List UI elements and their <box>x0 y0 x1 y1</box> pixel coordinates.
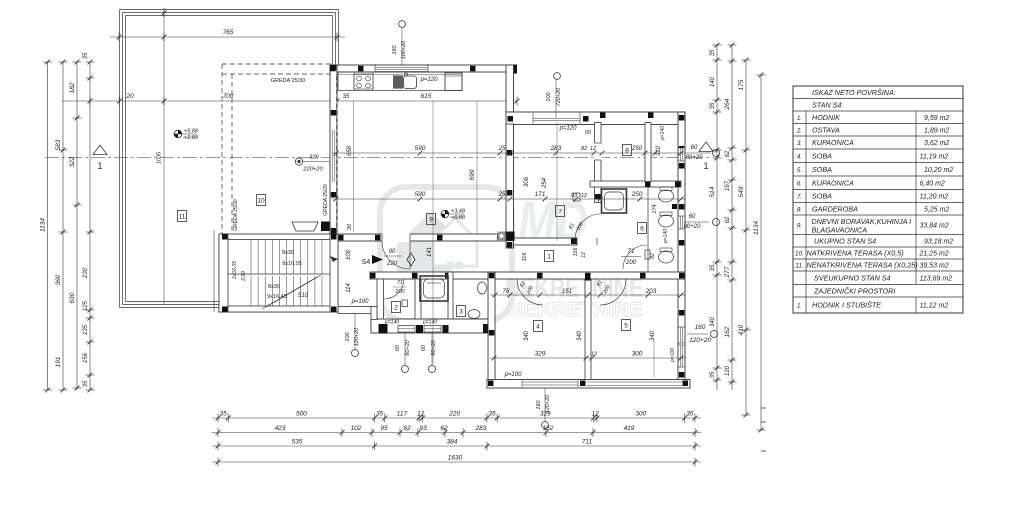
svg-text:UKUPNO STAN S4: UKUPNO STAN S4 <box>814 236 876 245</box>
svg-text:25: 25 <box>498 146 506 152</box>
svg-text:220: 220 <box>448 411 460 418</box>
svg-text:113,69 m2: 113,69 m2 <box>920 275 953 282</box>
svg-text:283: 283 <box>475 425 487 432</box>
svg-text:100+20: 100+20 <box>401 40 407 59</box>
svg-text:329: 329 <box>535 351 546 358</box>
svg-text:80+20: 80+20 <box>684 224 702 230</box>
svg-text:167: 167 <box>725 180 731 191</box>
svg-text:329: 329 <box>540 411 551 418</box>
svg-text:360: 360 <box>55 274 62 285</box>
svg-text:117: 117 <box>397 411 408 418</box>
svg-text:200: 200 <box>625 260 637 266</box>
svg-text:25: 25 <box>498 192 506 198</box>
svg-text:1: 1 <box>703 161 708 171</box>
svg-text:125: 125 <box>83 300 89 311</box>
svg-text:NATKRIVENA TERASA (X0,5): NATKRIVENA TERASA (X0,5) <box>807 249 904 258</box>
svg-text:p=100: p=100 <box>504 372 523 378</box>
svg-text:p=140: p=140 <box>663 229 669 244</box>
svg-text:220: 220 <box>386 261 398 267</box>
svg-text:2,90: 2,90 <box>241 271 247 282</box>
svg-text:630: 630 <box>69 292 76 303</box>
svg-text:HODNIK I STUBIŠTE: HODNIK I STUBIŠTE <box>812 301 881 310</box>
svg-text:549: 549 <box>738 186 745 197</box>
svg-text:765: 765 <box>223 29 234 36</box>
svg-text:p=100: p=100 <box>351 299 370 305</box>
svg-text:35: 35 <box>83 380 89 387</box>
svg-text:60: 60 <box>395 344 401 351</box>
svg-text:71: 71 <box>397 280 403 286</box>
svg-text:S4: S4 <box>362 259 371 266</box>
svg-text:340: 340 <box>710 316 716 327</box>
svg-text:264: 264 <box>724 98 731 110</box>
svg-text:203: 203 <box>645 288 657 295</box>
svg-text:6: 6 <box>640 226 644 233</box>
svg-text:11,19 m2: 11,19 m2 <box>920 153 949 160</box>
svg-text:p=120: p=120 <box>420 77 439 83</box>
svg-text:35: 35 <box>83 52 89 59</box>
svg-text:GREDA 25/20: GREDA 25/20 <box>323 184 329 216</box>
svg-text:10,20 m2: 10,20 m2 <box>924 167 953 174</box>
svg-text:510: 510 <box>298 293 309 299</box>
svg-text:100: 100 <box>546 91 552 101</box>
svg-text:p=120: p=120 <box>559 126 578 132</box>
svg-text:12: 12 <box>592 411 600 418</box>
svg-text:1: 1 <box>547 254 551 261</box>
svg-text:283: 283 <box>550 145 562 152</box>
svg-text:39,53 m2: 39,53 m2 <box>920 263 949 270</box>
svg-text:9x16,05: 9x16,05 <box>282 261 302 267</box>
svg-text:35: 35 <box>376 411 384 418</box>
svg-text:419: 419 <box>624 425 635 432</box>
svg-text:8x30: 8x30 <box>282 250 294 256</box>
svg-text:80+20: 80+20 <box>686 155 704 161</box>
svg-text:95: 95 <box>380 425 388 432</box>
svg-text:12: 12 <box>591 352 597 358</box>
svg-text:250: 250 <box>631 191 643 198</box>
svg-text:93,18 m2: 93,18 m2 <box>924 238 953 245</box>
svg-text:82: 82 <box>650 253 656 259</box>
svg-text:615: 615 <box>421 93 432 100</box>
svg-text:STAN S4:: STAN S4: <box>812 100 843 109</box>
svg-text:590: 590 <box>415 191 426 198</box>
svg-text:62: 62 <box>403 425 411 432</box>
svg-text:116: 116 <box>522 252 528 262</box>
svg-text:410: 410 <box>738 324 745 335</box>
svg-text:62: 62 <box>440 425 448 432</box>
svg-text:+3,48: +3,48 <box>451 209 466 215</box>
svg-text:GARDEROBA: GARDEROBA <box>812 204 858 213</box>
svg-text:p=100: p=100 <box>670 348 676 363</box>
svg-text:9,59 m2: 9,59 m2 <box>924 115 949 122</box>
svg-text:NEKRETNINE: NEKRETNINE <box>508 300 643 321</box>
svg-text:9.: 9. <box>797 222 802 229</box>
svg-text:10: 10 <box>257 198 265 205</box>
svg-text:SVEUKUPNO STAN S4: SVEUKUPNO STAN S4 <box>814 273 891 282</box>
svg-text:60: 60 <box>689 214 696 220</box>
svg-text:62: 62 <box>725 150 731 157</box>
svg-text:658: 658 <box>347 145 353 156</box>
svg-text:182: 182 <box>69 82 76 93</box>
svg-text:11,20 m2: 11,20 m2 <box>920 194 949 201</box>
svg-text:ZAJEDNIČKI PROSTORI: ZAJEDNIČKI PROSTORI <box>813 286 895 295</box>
svg-text:9x16,45: 9x16,45 <box>267 294 287 300</box>
svg-text:8: 8 <box>625 148 629 155</box>
svg-text:423: 423 <box>275 425 286 432</box>
svg-text:141: 141 <box>427 247 433 257</box>
svg-text:35: 35 <box>488 411 496 418</box>
svg-text:71: 71 <box>628 249 635 255</box>
svg-text:120+20: 120+20 <box>689 337 711 344</box>
svg-text:220+20: 220+20 <box>302 167 323 173</box>
svg-text:11.: 11. <box>795 263 803 270</box>
svg-text:80+20: 80+20 <box>405 339 411 355</box>
svg-text:160: 160 <box>392 44 398 54</box>
svg-text:174: 174 <box>652 204 658 213</box>
svg-text:699: 699 <box>469 169 476 180</box>
svg-text:171: 171 <box>535 191 546 198</box>
svg-text:93: 93 <box>419 425 427 432</box>
svg-text:175: 175 <box>738 79 745 90</box>
svg-text:8.: 8. <box>797 206 802 213</box>
svg-text:30: 30 <box>347 223 353 230</box>
svg-text:35: 35 <box>710 102 716 109</box>
svg-text:500: 500 <box>296 411 307 418</box>
svg-text:20: 20 <box>125 93 134 100</box>
svg-text:p=140: p=140 <box>422 320 437 326</box>
svg-text:KUPAONICA: KUPAONICA <box>812 138 854 147</box>
svg-text:1.: 1. <box>797 115 802 122</box>
svg-text:+0,88: +0,88 <box>451 215 466 221</box>
svg-text:1,89 m2: 1,89 m2 <box>924 127 949 134</box>
svg-text:12: 12 <box>581 193 587 199</box>
svg-text:SOBA: SOBA <box>812 192 832 201</box>
svg-text:340: 340 <box>650 330 656 341</box>
svg-text:35: 35 <box>710 264 716 271</box>
svg-text:590: 590 <box>415 145 426 152</box>
svg-text:1630: 1630 <box>448 455 463 462</box>
svg-text:ISKAZ NETO POVRŠINA:: ISKAZ NETO POVRŠINA: <box>812 88 896 97</box>
svg-text:2: 2 <box>394 305 398 312</box>
svg-text:9: 9 <box>429 217 433 224</box>
svg-text:80+20: 80+20 <box>431 339 437 355</box>
svg-text:5,25 m2: 5,25 m2 <box>924 206 949 213</box>
svg-text:583: 583 <box>55 139 62 150</box>
svg-text:254: 254 <box>542 177 548 189</box>
svg-text:3: 3 <box>459 309 463 316</box>
svg-text:711: 711 <box>582 439 593 446</box>
svg-text:93: 93 <box>571 193 578 199</box>
svg-text:35: 35 <box>710 371 716 378</box>
svg-text:160: 160 <box>536 399 542 409</box>
svg-text:GREDA 25/30: GREDA 25/30 <box>233 199 239 231</box>
svg-text:35: 35 <box>343 94 350 100</box>
svg-text:GREDA 25/30: GREDA 25/30 <box>271 78 306 84</box>
svg-text:35: 35 <box>686 411 694 418</box>
svg-text:120+20: 120+20 <box>354 327 360 346</box>
svg-text:+5,88: +5,88 <box>184 129 199 135</box>
svg-text:116: 116 <box>573 247 579 257</box>
svg-text:340: 340 <box>524 330 530 341</box>
svg-text:+2,88: +2,88 <box>184 135 199 141</box>
svg-text:8x30: 8x30 <box>268 284 280 290</box>
svg-text:12: 12 <box>590 146 596 152</box>
svg-text:162: 162 <box>724 326 731 337</box>
svg-text:720+20: 720+20 <box>556 87 562 106</box>
svg-text:HODNIK: HODNIK <box>812 113 841 122</box>
svg-text:10.: 10. <box>795 251 804 258</box>
svg-text:5: 5 <box>624 323 628 330</box>
svg-text:4: 4 <box>536 324 540 331</box>
svg-text:NENATKRIVENA TERASA (X0,25): NENATKRIVENA TERASA (X0,25) <box>807 261 918 270</box>
svg-text:76: 76 <box>503 289 510 295</box>
svg-text:7.: 7. <box>797 194 802 201</box>
svg-text:62: 62 <box>725 216 731 223</box>
svg-text:21,25 m2: 21,25 m2 <box>919 251 949 258</box>
svg-text:162: 162 <box>543 425 554 432</box>
svg-text:12: 12 <box>417 411 425 418</box>
svg-text:4.: 4. <box>797 153 802 160</box>
svg-text:6,40 m2: 6,40 m2 <box>920 180 945 187</box>
svg-text:3.: 3. <box>797 140 802 147</box>
svg-text:90: 90 <box>389 249 396 255</box>
svg-text:535: 535 <box>292 439 303 446</box>
svg-text:200: 200 <box>394 289 405 295</box>
svg-text:p=140: p=140 <box>384 320 399 326</box>
svg-text:60: 60 <box>691 145 698 151</box>
svg-text:310: 310 <box>656 145 662 156</box>
svg-text:300: 300 <box>632 351 643 358</box>
svg-text:33,84 m2: 33,84 m2 <box>920 222 949 229</box>
svg-text:35: 35 <box>220 411 228 418</box>
svg-text:6.: 6. <box>797 180 802 187</box>
svg-text:1: 1 <box>97 161 102 171</box>
svg-text:1.: 1. <box>797 303 802 310</box>
svg-text:384: 384 <box>447 439 458 446</box>
svg-text:230: 230 <box>83 267 89 279</box>
svg-text:1134: 1134 <box>753 221 760 235</box>
svg-text:2.: 2. <box>796 127 802 134</box>
svg-text:140: 140 <box>710 76 716 87</box>
svg-text:SOBA: SOBA <box>812 151 832 160</box>
svg-text:151: 151 <box>562 288 573 295</box>
svg-text:SOBA: SOBA <box>812 165 832 174</box>
svg-text:BLAGAVAONICA: BLAGAVAONICA <box>812 226 868 235</box>
svg-text:11: 11 <box>179 214 186 221</box>
svg-text:7: 7 <box>558 209 562 216</box>
svg-text:5.: 5. <box>797 167 802 174</box>
svg-text:306: 306 <box>524 176 530 187</box>
svg-text:102: 102 <box>351 425 362 432</box>
svg-text:160: 160 <box>695 324 706 331</box>
svg-text:191: 191 <box>55 356 62 367</box>
svg-text:11,12 m2: 11,12 m2 <box>920 303 949 310</box>
svg-text:p=140: p=140 <box>660 126 666 141</box>
svg-text:514: 514 <box>709 186 716 197</box>
svg-text:3,62 m2: 3,62 m2 <box>924 140 949 147</box>
svg-text:OSTAVA: OSTAVA <box>812 125 840 134</box>
svg-text:340: 340 <box>577 330 583 341</box>
svg-text:35: 35 <box>710 49 716 56</box>
svg-text:320: 320 <box>309 155 319 161</box>
svg-text:277: 277 <box>724 266 731 278</box>
svg-text:135: 135 <box>83 324 89 335</box>
svg-text:1134: 1134 <box>40 218 47 232</box>
svg-text:1d16,05: 1d16,05 <box>232 261 238 279</box>
svg-text:82: 82 <box>581 146 587 152</box>
svg-text:156: 156 <box>83 352 89 363</box>
svg-text:114: 114 <box>346 283 352 293</box>
svg-text:KUPAONICA: KUPAONICA <box>812 178 854 187</box>
svg-text:120: 120 <box>725 365 731 376</box>
svg-text:60: 60 <box>421 344 427 351</box>
svg-text:100: 100 <box>345 331 351 341</box>
svg-text:60: 60 <box>585 130 592 136</box>
svg-text:300: 300 <box>635 411 646 418</box>
svg-text:106: 106 <box>346 249 352 260</box>
svg-text:12: 12 <box>581 252 587 258</box>
svg-text:322: 322 <box>69 156 76 167</box>
svg-text:250: 250 <box>631 146 643 152</box>
